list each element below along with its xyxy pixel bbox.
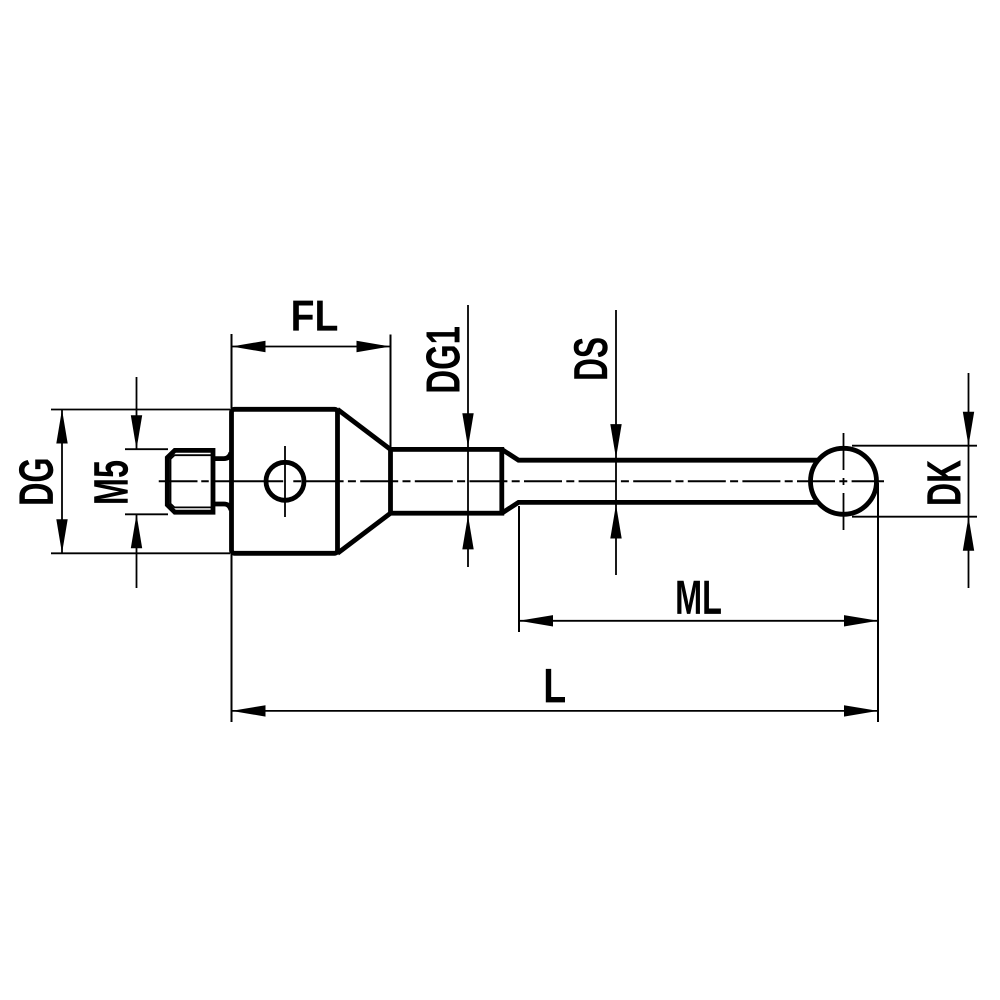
arrow DK up [963, 517, 974, 551]
dimension line M5 bottom segment [136, 514, 138, 588]
thread relief neck bottom [213, 504, 231, 510]
cylinder DG1 section [391, 449, 502, 513]
extension line vertical left (body edge, FL and L) [231, 334, 233, 722]
dimension line FL [232, 346, 391, 348]
extension line vertical right (ball edge, ML and L) [877, 483, 879, 722]
arrow ML right [844, 615, 878, 626]
centerline main axis segment 3 [293, 480, 884, 482]
arrow DS up [610, 505, 621, 539]
extension line M5 bottom [125, 513, 168, 515]
extension line vertical FL right [390, 335, 392, 449]
dimension line L [232, 710, 879, 712]
dimension line DG [61, 410, 63, 554]
hole vertical crosshair [284, 446, 286, 517]
extension line DG top [51, 409, 230, 411]
arrow L right [844, 705, 878, 716]
threaded stud M5 outline [167, 450, 213, 512]
body block [232, 409, 338, 553]
extension line DK bottom [852, 516, 977, 518]
arrow DS down [610, 424, 621, 458]
arrow DG down [56, 519, 67, 553]
centerline main axis segment 2 [213, 480, 294, 482]
label DS [574, 338, 608, 379]
label M5 [94, 461, 128, 503]
dimension line DK [968, 373, 970, 588]
label DK [927, 460, 960, 504]
extension line M5 top [125, 448, 168, 450]
taper cone top edge [338, 409, 391, 449]
body cross hole circle [266, 462, 304, 500]
arrow M5 down [131, 415, 142, 449]
dimension line DG1 [467, 305, 469, 567]
arrow L left [232, 705, 266, 716]
arrow M5 up [131, 514, 142, 548]
arrow FL right [357, 341, 391, 352]
arrow FL left [232, 341, 266, 352]
chamfer cylinder to stem bottom [502, 502, 817, 513]
extension line DG bottom [51, 552, 230, 554]
arrow DK down [963, 412, 974, 446]
thread relief neck top [213, 453, 231, 459]
extension line vertical ML left [518, 506, 520, 632]
arrow DG up [56, 410, 67, 444]
centerline main axis segment 1 [159, 480, 213, 482]
ball tip [811, 448, 877, 514]
label ML [677, 581, 721, 614]
label FL [293, 301, 337, 331]
label L [546, 669, 565, 702]
thread minor diameter thin line [171, 455, 214, 507]
label DG [19, 460, 53, 504]
taper cone bottom edge [338, 513, 391, 553]
arrow ML left [519, 615, 553, 626]
arrow DG1 down [462, 413, 473, 447]
dimension line DS [615, 310, 617, 575]
label DG1 [426, 327, 460, 391]
extension line DK top [852, 445, 977, 447]
dimension line M5 top segment [136, 377, 138, 449]
arrow DG1 up [462, 515, 473, 549]
dimension line ML [519, 620, 878, 622]
chamfer cylinder to stem top [502, 449, 817, 460]
ball vertical crosshair [843, 433, 845, 530]
